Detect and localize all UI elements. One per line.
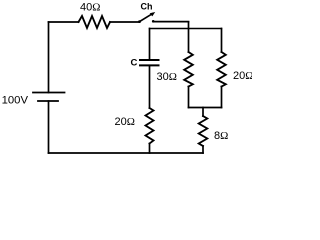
wire U-joint bottom of parallel pair <box>189 107 222 109</box>
svg-text:30Ω: 30Ω <box>157 71 177 83</box>
resistor R=30 ohm zigzag <box>184 52 193 87</box>
resistor R=40 ohm zigzag <box>79 16 111 28</box>
wire 20ohm to bottom rail <box>149 144 151 154</box>
wire 8ohm to bottom rail <box>202 146 204 153</box>
svg-text:8Ω: 8Ω <box>214 130 228 142</box>
wire bus node B horizontal <box>150 28 222 30</box>
wire left vertical upper (battery top) <box>48 22 50 93</box>
wire top-left rail segment <box>49 21 79 23</box>
wire switch to right corner <box>153 21 188 23</box>
svg-text:20Ω: 20Ω <box>233 70 252 82</box>
svg-text:100V: 100V <box>2 94 29 106</box>
svg-text:C: C <box>131 58 138 69</box>
capacitor C plates <box>140 59 159 61</box>
svg-text:Ch: Ch <box>141 1 153 11</box>
wire bottom rail <box>49 152 204 154</box>
svg-text:20Ω: 20Ω <box>115 116 135 128</box>
wire 30ohm lower <box>188 87 190 108</box>
wire 8ohm stem <box>202 108 204 117</box>
resistor R=20 ohm (right) branch wire <box>221 29 223 53</box>
switch Ch blade <box>138 12 155 23</box>
battery V1 long plate <box>33 92 65 94</box>
battery V1 short plate <box>38 100 58 102</box>
resistor R=20 ohm (bottom middle) zigzag <box>146 108 154 144</box>
wire right vertical down to 30ohm <box>188 22 190 52</box>
wire 20ohm right lower <box>221 87 223 108</box>
wire left vertical lower <box>48 101 50 153</box>
capacitor branch upper wire <box>149 29 151 61</box>
capacitor lower wire <box>149 65 151 108</box>
svg-text:40Ω: 40Ω <box>80 2 100 14</box>
resistor R=8 ohm zigzag <box>199 116 208 146</box>
resistor R=20 ohm (right) zigzag <box>217 52 226 87</box>
wire from resistor to switch contact <box>110 21 139 23</box>
